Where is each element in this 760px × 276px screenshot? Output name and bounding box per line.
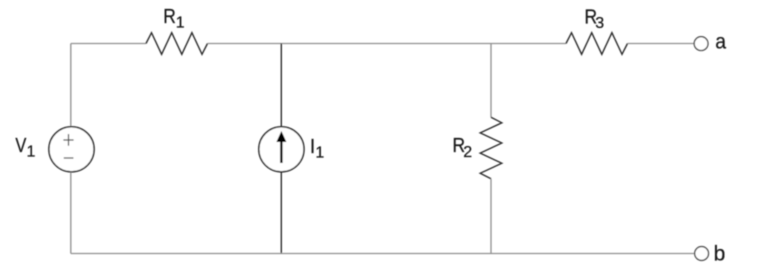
- wire top-middle horizontal: [208, 43, 567, 45]
- terminal b: [695, 247, 709, 261]
- resistor R3: [566, 33, 628, 55]
- wire bottom horizontal: [71, 253, 695, 255]
- svg-text:R: R: [163, 6, 176, 28]
- wire middle vertical upper: [280, 44, 282, 127]
- wire R2 branch lower: [490, 179, 492, 254]
- wire top-right horizontal: [628, 43, 694, 45]
- terminal a: [694, 37, 708, 51]
- minus sign: [64, 157, 74, 159]
- svg-text:1: 1: [27, 143, 36, 160]
- wire R2 branch upper: [490, 44, 492, 118]
- resistor R1: [146, 33, 208, 55]
- resistor R2: [480, 117, 502, 179]
- svg-text:b: b: [714, 243, 726, 266]
- wire left vertical lower: [70, 172, 72, 253]
- svg-text:1: 1: [176, 15, 185, 32]
- wire top-left horizontal: [71, 43, 146, 45]
- plus sign: [63, 139, 73, 141]
- svg-text:a: a: [715, 31, 726, 54]
- current source I1: [259, 127, 304, 172]
- svg-text:2: 2: [463, 144, 472, 161]
- wire middle vertical lower: [280, 172, 282, 253]
- svg-text:3: 3: [595, 15, 604, 32]
- wire left vertical upper: [70, 44, 72, 127]
- voltage source V1: [49, 127, 94, 172]
- svg-text:1: 1: [315, 144, 324, 161]
- arrow of I1: [280, 140, 282, 163]
- svg-text:V: V: [15, 135, 27, 157]
